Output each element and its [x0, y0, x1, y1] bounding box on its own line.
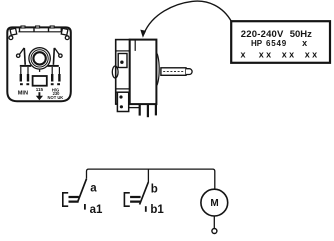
- svg-text:115: 115: [36, 87, 44, 92]
- shaft tip: [186, 69, 192, 75]
- svg-text:x: x: [240, 49, 245, 59]
- panel corner lug right: [65, 36, 69, 40]
- contact a1 fixed contact: [84, 204, 86, 210]
- svg-text:MIN: MIN: [18, 90, 28, 96]
- knob shaft outer ring: [29, 48, 50, 69]
- left lever arm: [19, 48, 24, 55]
- panel corner tab left: [10, 28, 17, 35]
- svg-text:M: M: [210, 198, 218, 209]
- switch mounting bracket: [116, 40, 130, 105]
- knob index tick: [39, 69, 41, 72]
- terminal node: [212, 229, 217, 234]
- right lever shaft: [52, 48, 55, 65]
- bottom tab hole 2: [120, 105, 123, 108]
- selector panel outline: [7, 27, 71, 101]
- shaft knurl line: [163, 70, 185, 72]
- left lever crossbar: [20, 65, 31, 67]
- svg-text:x: x: [259, 49, 264, 59]
- motor lower wire: [213, 216, 215, 229]
- svg-text:a: a: [90, 182, 97, 194]
- svg-text:a1: a1: [90, 204, 103, 216]
- right terminal pin 1: [51, 67, 53, 82]
- left terminal marks: [20, 83, 23, 85]
- left terminal pin 1: [20, 67, 22, 82]
- knob shaft inner ring: [33, 52, 45, 64]
- svg-text:x: x: [266, 49, 271, 59]
- left terminal pin 2: [27, 67, 29, 82]
- contact a actuator symbol: [63, 193, 68, 206]
- right terminal marks: [51, 83, 54, 85]
- shaft: [161, 68, 186, 76]
- left lever pivot: [17, 54, 20, 57]
- body internal line: [134, 40, 136, 51]
- bracket bottom tab: [117, 92, 128, 111]
- motor M1: [201, 189, 228, 216]
- panel top inner edge: [19, 31, 62, 33]
- tab wire to terminal: [129, 107, 140, 109]
- right lever arm: [55, 48, 60, 55]
- svg-text:HP: HP: [251, 39, 263, 48]
- wire bus: [87, 169, 215, 189]
- right lever pivot: [59, 54, 62, 57]
- bracket left ear: [112, 66, 118, 78]
- svg-text:b1: b1: [150, 204, 164, 216]
- switch body: [130, 40, 157, 105]
- svg-text:6549: 6549: [266, 39, 287, 48]
- arrow head: [140, 30, 146, 38]
- voltage selector window: [33, 76, 47, 86]
- svg-text:50Hz: 50Hz: [290, 29, 312, 40]
- bottom tab hole 1: [119, 95, 122, 98]
- contact b blade: [140, 182, 149, 205]
- contact b actuator symbol: [124, 193, 129, 206]
- svg-text:x: x: [312, 49, 317, 59]
- terminal prong 2: [147, 104, 149, 117]
- svg-text:x: x: [282, 49, 287, 59]
- rotary disc: [151, 52, 159, 87]
- down arrow: [38, 92, 40, 96]
- terminal prong 3: [155, 104, 157, 115]
- bracket lower lines: [116, 89, 130, 92]
- left lever shaft: [23, 48, 26, 65]
- right terminal pin 2: [58, 67, 60, 82]
- wire drop b: [147, 169, 149, 182]
- svg-text:b: b: [151, 183, 158, 195]
- arrow from rating plate to switch: [144, 1, 232, 33]
- svg-text:x: x: [305, 49, 310, 59]
- terminal prong 1: [139, 104, 141, 116]
- svg-text:NOT UK: NOT UK: [48, 95, 64, 100]
- right lever crossbar: [47, 65, 58, 67]
- panel corner lug left: [9, 36, 13, 40]
- top tab hole: [120, 61, 123, 64]
- bottom tab ear: [129, 94, 134, 99]
- panel corner tab right: [61, 28, 68, 35]
- panel top bumps: [21, 26, 25, 28]
- contact b1 fixed contact: [145, 206, 147, 212]
- bracket top tab: [118, 54, 127, 68]
- svg-text:x: x: [302, 38, 307, 48]
- bracket inner line: [116, 50, 130, 52]
- contact a blade: [78, 179, 87, 202]
- knob shaft middle ring: [31, 50, 48, 67]
- svg-text:x: x: [289, 49, 294, 59]
- rating plate box: [231, 21, 330, 63]
- panel top slot separators: [20, 28, 62, 32]
